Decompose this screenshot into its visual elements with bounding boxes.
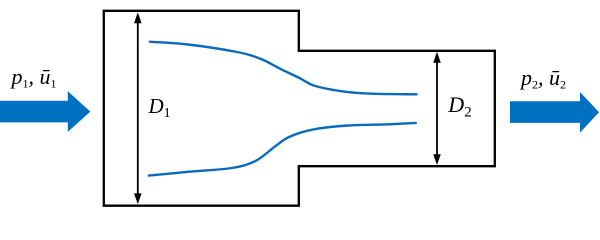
label p2,u2 (outlet)	[521, 67, 566, 91]
streamline bottom (flow contraction curve)	[149, 123, 416, 176]
dimension arrow D1 (vertical double-headed)	[134, 12, 142, 204]
block arrow outlet (right, blue)	[510, 92, 599, 133]
dimension arrow D2 (vertical double-headed)	[433, 52, 441, 165]
streamline top (flow contraction curve)	[150, 42, 417, 95]
label D1	[149, 96, 171, 121]
label p1,u1 (inlet)	[12, 66, 57, 90]
block arrow inlet (left, blue)	[0, 91, 90, 132]
pipe outline (stepped contraction duct)	[104, 11, 495, 206]
label D2	[448, 94, 471, 121]
